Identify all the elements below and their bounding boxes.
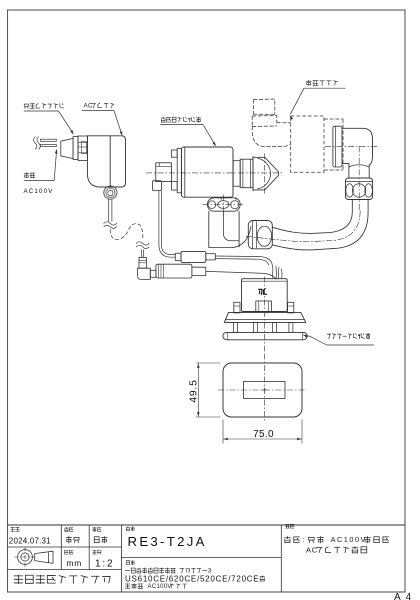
flange bolt circle right <box>231 201 239 209</box>
sensor window rectangle <box>244 382 286 399</box>
product name line1 <box>125 570 129 572</box>
svg-text:A4: A4 <box>394 592 416 600</box>
spud pipe from solenoid <box>220 197 222 199</box>
existing valve elbow inner dashed <box>277 122 291 124</box>
projection symbol frustum <box>35 551 53 563</box>
window center cross <box>262 389 267 391</box>
sensor unit box <box>242 279 288 312</box>
leader underline sensor label <box>327 344 374 346</box>
label seizu (drafter) <box>65 527 69 531</box>
sensor flange plate inner line <box>226 319 305 321</box>
existing valve elbow outer dashed <box>252 127 291 147</box>
svg-text:AC100V: AC100V <box>331 535 367 544</box>
plug latch ridges <box>78 141 87 143</box>
checker name Minamisawa <box>94 537 99 543</box>
title block col line 1 <box>60 525 62 570</box>
solenoid centerline <box>146 172 284 174</box>
svg-text:75.0: 75.0 <box>253 429 274 440</box>
svg-text:AC100V: AC100V <box>24 188 54 195</box>
sensor mount leg 2 <box>253 322 257 332</box>
cable connector to sensor <box>215 256 273 270</box>
solenoid mount plate <box>177 149 181 193</box>
inline connector small end <box>175 253 181 260</box>
hose centerline <box>246 210 360 242</box>
upper union nut ellipse right <box>365 184 373 197</box>
remarks line1 <box>285 536 291 542</box>
outlet plug prong upper <box>41 139 57 141</box>
sensor mount leg 3 <box>273 322 277 332</box>
title block row line left 1 <box>8 546 122 548</box>
cable strain relief coil <box>104 186 117 199</box>
flange center ellipse <box>218 201 229 209</box>
lower union nut <box>248 221 272 249</box>
upper union nut ellipse center <box>352 184 365 197</box>
plug nose block <box>61 138 73 158</box>
existing valve top stub <box>254 99 275 114</box>
label kisetsu (existing) <box>24 173 29 178</box>
leader line to plug <box>59 111 74 134</box>
label hinban (part no) <box>126 526 130 530</box>
adapter cord dashed route curve <box>110 224 143 241</box>
upper union nut <box>345 178 372 200</box>
flange horizontal centerline <box>203 204 246 206</box>
flush valve inner elbow line <box>223 211 239 241</box>
flange bolt circle left <box>208 201 216 209</box>
inline connector body <box>181 251 206 262</box>
label sensor unit <box>327 334 331 339</box>
title block row line part-name <box>121 557 281 559</box>
cable bundle into sensor <box>273 266 282 279</box>
cord segment to DC plug <box>141 250 143 258</box>
inline connector neck <box>206 254 216 260</box>
solenoid mount tab upper <box>171 150 177 157</box>
elbow centerline horizontal <box>325 145 378 147</box>
flush valve body <box>209 211 239 247</box>
svg-text:mm: mm <box>67 558 83 568</box>
cable jack to sensor <box>206 271 276 279</box>
hose vertical walls <box>351 200 353 213</box>
adapter cord twin lines <box>108 199 110 222</box>
sensor mount leg 1 <box>234 322 238 332</box>
break mark on adapter cord <box>104 222 117 229</box>
svg-text:1:2: 1:2 <box>95 558 114 569</box>
leader line from AC100V to plug <box>54 150 56 180</box>
svg-text::: : <box>302 535 306 544</box>
elbow flange plate <box>333 126 342 167</box>
plug collar band <box>73 137 78 160</box>
company name Minamisawa Co Ltd <box>14 575 23 583</box>
sensor bottom protrusion <box>256 301 272 312</box>
faceplate horizontal centerline <box>218 389 307 391</box>
right-angle DC plug body <box>138 268 151 279</box>
faceplate vertical centerline <box>263 354 265 423</box>
power jack taper <box>192 267 206 275</box>
label umekomi concent (wall outlet) <box>24 104 28 108</box>
existing valve right section dashed <box>324 119 343 170</box>
leader line to existing valve <box>290 88 304 114</box>
underline for AC100V label <box>24 179 54 181</box>
outlet plug prong lower <box>41 145 57 147</box>
solenoid cable twin lines <box>158 191 160 245</box>
sensor label text usu <box>259 289 262 294</box>
sensor base plate end ticks <box>227 332 229 339</box>
label hizuke (date) <box>11 527 15 531</box>
flush valve outlet curve <box>233 227 252 248</box>
flange oval body <box>207 198 240 211</box>
existing valve body dashed <box>291 116 324 172</box>
acorn union fitting <box>253 156 279 191</box>
outlet hex nut <box>240 159 253 188</box>
svg-text:AC: AC <box>306 545 318 554</box>
elbow down pipe <box>348 166 350 178</box>
svg-text:2024.07.31: 2024.07.31 <box>9 536 51 545</box>
drafter name Oishi <box>66 536 72 542</box>
title block row line left 2 <box>8 569 122 571</box>
dim extension lines left <box>196 362 221 364</box>
AC adapter body seam <box>109 136 111 187</box>
power jack barrel <box>156 264 192 278</box>
sensor side tab right <box>288 302 294 313</box>
projection symbol centerlines <box>15 556 36 558</box>
projection symbol circle <box>18 550 33 565</box>
sensor faceplate outline <box>223 363 302 417</box>
leader line to adapter body <box>114 111 122 135</box>
acorn fitting vertical centerline <box>263 153 265 194</box>
elbow bend curve <box>349 165 369 167</box>
sensor side tab left <box>234 302 240 313</box>
acorn fitting dome arc <box>258 158 271 188</box>
solenoid connector cap <box>152 181 161 191</box>
dimension line 75.0 <box>223 438 302 440</box>
lower union nut band lines <box>252 221 254 249</box>
dim extension lines bottom <box>222 420 224 444</box>
svg-text:US610CE/620CE/520CE/720CE: US610CE/620CE/520CE/720CE <box>125 574 259 583</box>
elbow body <box>342 128 373 166</box>
sensor mount leg 4 <box>289 322 293 332</box>
svg-text:49.5: 49.5 <box>188 379 199 402</box>
solenoid mount tab lower <box>171 181 177 190</box>
break mark 2 on adapter cord <box>136 242 149 249</box>
power jack ribs <box>158 264 160 278</box>
hose bend and horizontal run <box>272 212 368 250</box>
elbow centerline vertical <box>358 146 360 212</box>
leader underline for wall outlet label <box>24 110 59 112</box>
svg-text:RE3-T2JA: RE3-T2JA <box>128 534 207 549</box>
sensor base plate <box>223 332 307 339</box>
sensor vertical centerline <box>264 277 266 352</box>
leader underline for AC adapter label <box>82 110 114 112</box>
break mark at prongs <box>34 137 41 149</box>
svg-text:AC100V: AC100V <box>148 584 172 590</box>
label kenzu (checker) <box>93 527 97 531</box>
solenoid body left seam <box>184 147 186 197</box>
product name line3 <box>125 584 130 589</box>
leader line to solenoid body <box>203 125 216 146</box>
solenoid body cylinder <box>181 147 233 197</box>
plug latch block <box>78 136 87 160</box>
upper union nut ellipse left <box>346 184 354 197</box>
right-angle DC plug barrel <box>139 257 146 268</box>
solenoid cable bend to connector <box>159 245 175 258</box>
label biko (remarks) <box>286 524 290 528</box>
title block col line 4 (remarks) <box>280 525 282 592</box>
leader underline existing valve <box>304 87 346 89</box>
label kisetsu valve (existing valve) <box>306 80 311 85</box>
title block col line 2 <box>88 525 90 570</box>
solenoid connector block <box>156 163 172 182</box>
label denjiben unit (solenoid valve unit) <box>161 117 165 122</box>
title block col line 3 <box>120 525 122 592</box>
leader line with arrow to base plate <box>310 336 327 345</box>
flange vertical centerline <box>222 195 224 216</box>
solenoid outlet neck <box>233 161 240 187</box>
plug latch inner detail <box>82 141 87 153</box>
dimension line 49.5 <box>197 363 199 417</box>
leader underline solenoid label <box>160 124 203 126</box>
existing valve stub flange <box>252 116 277 127</box>
title block top line <box>8 524 406 526</box>
label shakudo (scale) <box>93 550 97 554</box>
DC plug nose <box>150 270 156 277</box>
lower union nut ellipse <box>257 226 271 246</box>
label tan-i (unit) <box>65 550 69 554</box>
AC adapter body <box>87 136 125 187</box>
label meisho (name) <box>126 561 129 565</box>
sensor flange plate trapezoid <box>224 312 305 322</box>
